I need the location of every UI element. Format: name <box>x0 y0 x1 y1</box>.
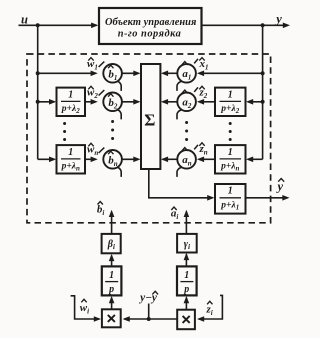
svg-text:y: y <box>276 180 284 194</box>
svg-text:1: 1 <box>184 270 189 281</box>
svg-text:1: 1 <box>228 89 233 100</box>
svg-text:1: 1 <box>109 270 114 281</box>
svg-text:1: 1 <box>228 186 233 197</box>
svg-text:1: 1 <box>228 147 233 158</box>
svg-text:Σ: Σ <box>144 111 155 130</box>
svg-text:1: 1 <box>68 89 73 100</box>
svg-text:Объект управления: Объект управления <box>105 17 196 28</box>
svg-text:n-го порядка: n-го порядка <box>118 28 182 39</box>
svg-text:p: p <box>108 284 114 295</box>
svg-text:y: y <box>274 12 282 26</box>
svg-text:p: p <box>183 284 189 295</box>
svg-text:1: 1 <box>68 147 73 158</box>
svg-text:u: u <box>21 13 28 27</box>
svg-text:y−y: y−y <box>138 292 158 304</box>
